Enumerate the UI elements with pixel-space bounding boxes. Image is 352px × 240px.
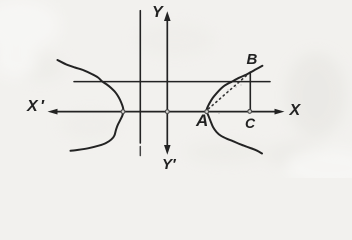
x-axis left arrowhead <box>48 109 58 115</box>
label Y <box>152 4 163 22</box>
label X' <box>27 98 44 116</box>
y-axis top arrowhead <box>164 11 171 21</box>
segment B to C <box>249 72 251 112</box>
vertical line at x=140 <box>139 11 141 143</box>
hyperbola right branch <box>207 66 263 154</box>
label A <box>196 111 208 131</box>
x-axis right arrowhead <box>275 109 285 115</box>
y-axis bottom arrowhead <box>164 145 171 155</box>
node dot: left vertex <box>121 110 125 114</box>
node dot: C <box>248 110 252 114</box>
hyperbola left branch <box>58 60 124 151</box>
node dot: origin <box>165 110 169 114</box>
scan speckles <box>213 84 242 114</box>
vertical line x=140 dashed lower tail <box>139 147 141 156</box>
label Y' <box>162 156 176 173</box>
x-axis <box>54 111 278 113</box>
horizontal chord line <box>74 81 270 83</box>
dotted chord A to B <box>209 74 249 109</box>
label X <box>290 102 301 120</box>
label B <box>247 51 258 68</box>
y-axis <box>166 17 168 148</box>
node dot: A <box>205 110 209 114</box>
label C <box>245 115 255 131</box>
